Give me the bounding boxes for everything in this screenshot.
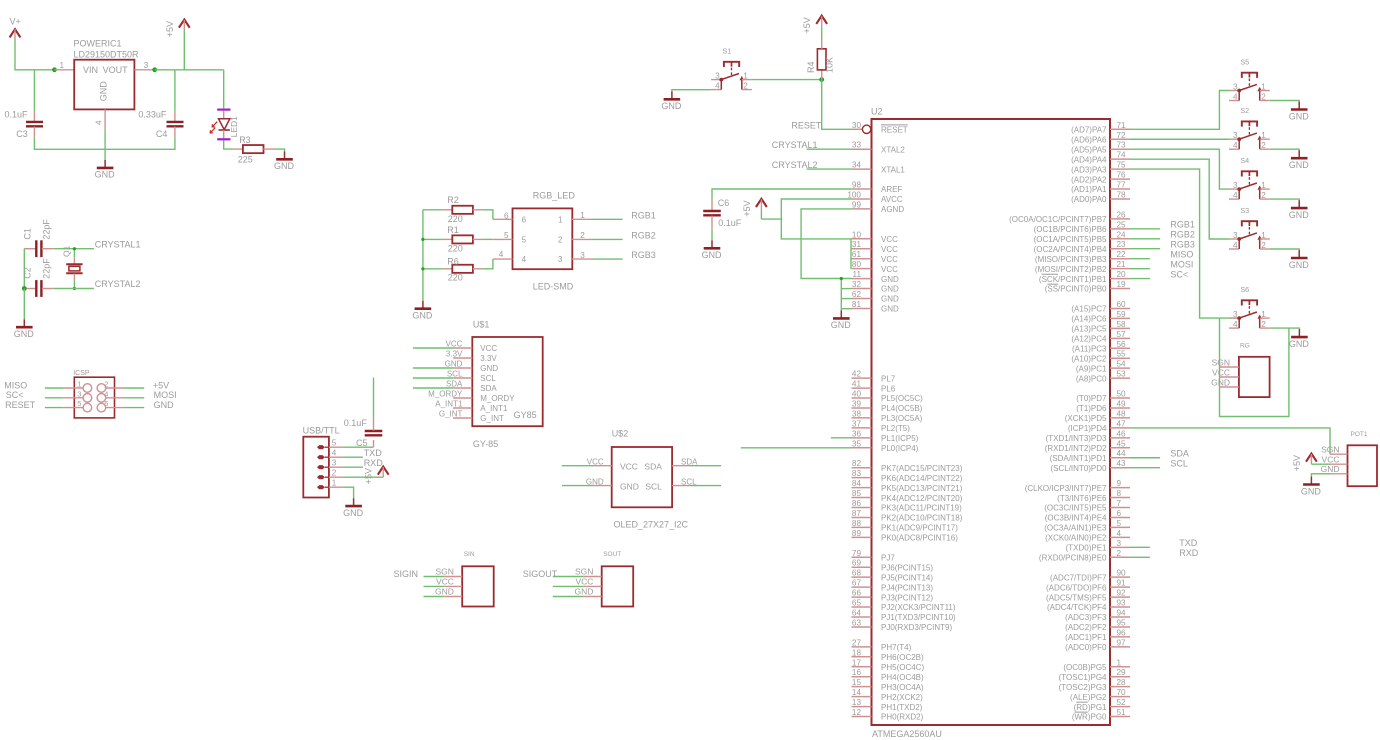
svg-text:GND: GND	[480, 364, 498, 373]
svg-text:73: 73	[1117, 141, 1127, 150]
svg-text:1: 1	[1261, 310, 1266, 319]
wire SDA (U2)	[1130, 457, 1160, 459]
wire S3 pin2 to gnd	[1270, 249, 1299, 250]
wire PA7 to S5	[1130, 91, 1229, 130]
connector USB/TTL pin 1 stub	[329, 486, 344, 488]
ground GND (crystal)	[23, 319, 25, 327]
svg-text:G_INT: G_INT	[439, 409, 463, 418]
wire AVCC loop	[781, 199, 851, 239]
ic U2 right pin (AD0)PA0 (78)	[1110, 198, 1130, 200]
module U$1 pin SCL stub	[453, 377, 472, 379]
resistor R1 220	[423, 238, 443, 240]
svg-text:SC<: SC<	[6, 390, 24, 400]
svg-text:(ADC4/TCK)PF4: (ADC4/TCK)PF4	[1047, 603, 1107, 612]
svg-text:2: 2	[558, 235, 563, 244]
wire RGB1 (led side)	[593, 218, 623, 220]
svg-text:M_ORDY: M_ORDY	[428, 389, 463, 398]
svg-text:3: 3	[1233, 231, 1238, 240]
ic U2 right pin (MOSI/PCINT2)PB2 (21)	[1110, 268, 1130, 270]
svg-text:44: 44	[1117, 449, 1127, 458]
svg-text:20: 20	[1117, 270, 1127, 279]
wire C2 to gnd	[23, 289, 25, 320]
wire PA5 to S4	[1130, 149, 1229, 189]
svg-text:ATMEGA2560AU: ATMEGA2560AU	[872, 729, 942, 739]
svg-text:C4: C4	[156, 129, 168, 139]
ground GND (S5)	[1298, 102, 1300, 110]
module U$1 pin SDA stub	[453, 387, 472, 389]
node junction C2	[22, 286, 27, 291]
capacitor C5 0.1uF	[373, 440, 375, 447]
wire C3 branch	[33, 70, 35, 111]
wire S1 pin1 to R4	[752, 79, 822, 81]
ic U2 right pin (ADC7/TDI)PF7 (90)	[1110, 576, 1130, 578]
svg-text:96: 96	[1117, 628, 1127, 637]
svg-text:(ADC6/TDO)PF6: (ADC6/TDO)PF6	[1046, 583, 1107, 592]
svg-text:57: 57	[1117, 330, 1127, 339]
svg-text:5: 5	[504, 231, 509, 240]
wire C5 up (dangling)	[373, 378, 375, 418]
svg-text:VCC: VCC	[620, 461, 638, 471]
module RG pin SGN	[1220, 366, 1239, 368]
ic U2 left pin PL0(ICP4) (35)	[852, 447, 872, 449]
svg-text:79: 79	[852, 549, 862, 558]
wire ICSP right row 3	[124, 407, 144, 409]
svg-text:14: 14	[852, 688, 862, 697]
wire RGB2 (U2)	[1130, 238, 1160, 240]
svg-text:VCC: VCC	[436, 577, 454, 587]
connector ICSP pin 2 stub	[106, 387, 124, 389]
svg-text:(TOSC1)PG4: (TOSC1)PG4	[1059, 673, 1107, 682]
svg-text:SGN: SGN	[1321, 445, 1339, 455]
svg-text:(ADC5/TMS)PF5: (ADC5/TMS)PF5	[1046, 593, 1107, 602]
ic U2 left pin AGND (99)	[852, 208, 872, 210]
wire USB pin3 RXD	[344, 466, 363, 468]
svg-text:XTAL2: XTAL2	[881, 145, 905, 154]
svg-text:PJ5(PCINT14): PJ5(PCINT14)	[881, 573, 933, 582]
svg-text:86: 86	[852, 499, 862, 508]
connector ICSP pin 2 circle	[97, 384, 106, 393]
svg-text:+5V: +5V	[742, 200, 752, 216]
svg-text:1: 1	[332, 479, 337, 488]
ic RGB_LED left pin 4 stub	[493, 258, 513, 260]
svg-text:5: 5	[332, 439, 337, 448]
svg-text:220: 220	[448, 273, 463, 283]
module RG pin VCC	[1220, 376, 1239, 378]
svg-text:GND: GND	[1289, 260, 1310, 270]
svg-text:POT1: POT1	[1351, 431, 1368, 438]
power symbol +5V arrow (R4)	[816, 16, 827, 24]
svg-text:(CLKO/ICP3/INT7)PE7: (CLKO/ICP3/INT7)PE7	[1025, 484, 1107, 493]
svg-text:35: 35	[852, 439, 862, 448]
svg-text:16: 16	[852, 668, 862, 677]
svg-text:4: 4	[499, 250, 504, 259]
svg-text:84: 84	[852, 479, 862, 488]
led LED1 branch wire	[223, 70, 225, 109]
svg-text:64: 64	[852, 608, 862, 617]
ic U2 right pin (ADC6/TDO)PF6 (91)	[1110, 586, 1130, 588]
ic U2 left pin PJ2(XCK3/PCINT11) (65)	[852, 606, 872, 608]
svg-text:PH7(T4): PH7(T4)	[881, 643, 912, 652]
module POT1 pin GND	[1330, 473, 1348, 475]
svg-text:(RXD0/PCIN8)PE0: (RXD0/PCIN8)PE0	[1039, 553, 1107, 562]
wire TXD (U2)	[1130, 546, 1150, 548]
svg-text:GND: GND	[343, 508, 364, 518]
svg-text:32: 32	[852, 280, 862, 289]
svg-text:4: 4	[522, 255, 527, 264]
connector USB/TTL pin 3 flag	[317, 465, 325, 469]
svg-text:(ICP1)PD4: (ICP1)PD4	[1068, 424, 1107, 433]
wire SIN SGN	[424, 576, 445, 578]
svg-text:(ADC3)PF3: (ADC3)PF3	[1065, 613, 1107, 622]
wire ICSP left row 1	[45, 387, 64, 389]
svg-text:PL3(OC5A): PL3(OC5A)	[881, 414, 923, 423]
wire RXD (U2)	[1130, 556, 1150, 558]
svg-text:PL1(ICP5): PL1(ICP5)	[881, 434, 919, 443]
svg-text:+5V: +5V	[802, 17, 812, 33]
svg-text:(T3/INT6)PE6: (T3/INT6)PE6	[1057, 494, 1107, 503]
module U$1 pin M_ORDY stub	[453, 397, 472, 399]
svg-text:74: 74	[1117, 151, 1127, 160]
ic U2 right pin (AD5)PA5 (73)	[1110, 148, 1130, 150]
wire PA3 to S6	[1130, 169, 1239, 318]
svg-text:VCC: VCC	[1322, 455, 1340, 465]
svg-text:2: 2	[1261, 191, 1266, 200]
svg-text:100: 100	[847, 190, 861, 199]
svg-text:(AD2)PA2: (AD2)PA2	[1071, 175, 1107, 184]
connector ICSP pin 5 circle	[83, 403, 92, 412]
svg-text:S2: S2	[1240, 106, 1249, 115]
ic U2 left pin PL5(OC5C) (40)	[852, 397, 872, 399]
svg-text:RG: RG	[1240, 343, 1250, 350]
wire +5V to POT1 VCC	[1311, 463, 1330, 465]
wire S6 pin2 to gnd	[1270, 328, 1300, 329]
svg-text:2: 2	[104, 380, 108, 389]
svg-text:AVCC: AVCC	[881, 195, 903, 204]
svg-text:22pF: 22pF	[42, 219, 52, 240]
resistor R2 220	[423, 209, 443, 211]
ic U2 left pin PK3(ADC11/PCINT19) (86)	[852, 507, 872, 509]
ic U2 right pin (ADC3)PF3 (94)	[1110, 616, 1130, 618]
ic U2 left pin AREF (98)	[852, 188, 872, 190]
svg-text:PK2(ADC10/PCINT18): PK2(ADC10/PCINT18)	[881, 514, 963, 523]
svg-text:10K: 10K	[824, 57, 834, 73]
connector SIN pin GND	[444, 596, 462, 598]
svg-text:97: 97	[1117, 638, 1127, 647]
svg-text:70: 70	[1117, 688, 1127, 697]
ic U2 right pin (ADC0)PF0 (97)	[1110, 646, 1130, 648]
svg-text:PH3(OC4A): PH3(OC4A)	[881, 683, 924, 692]
connector SIN pin SGN	[444, 576, 462, 578]
wire SOUT GND	[553, 596, 584, 598]
wire ICSP right row 2	[124, 397, 144, 399]
ic U2 left pin PL3(OC5A) (38)	[852, 417, 872, 419]
svg-text:PK4(ADC12/PCINT20): PK4(ADC12/PCINT20)	[881, 494, 963, 503]
module U$1 pin 3.3V stub	[453, 357, 472, 359]
ic U2 left pin PH3(OC4A) (15)	[852, 686, 872, 688]
wire ICSP left row 2	[45, 397, 64, 399]
svg-text:RXD: RXD	[364, 458, 384, 468]
ic U2 right pin (OC0A/OC1C/PCINT7)PB7 (26)	[1110, 218, 1130, 220]
svg-text:R2: R2	[447, 195, 459, 205]
module U$1 pin VCC stub	[453, 347, 472, 349]
svg-text:4: 4	[1233, 141, 1238, 150]
ic U2 left pin VCC (80)	[852, 268, 872, 270]
ic U2 left pin AVCC (100)	[852, 198, 872, 200]
ic U2 right pin (A14)PC6 (59)	[1110, 317, 1130, 319]
ic U2 left pin PH7(T4) (27)	[852, 646, 872, 648]
svg-text:31: 31	[852, 240, 862, 249]
wire USB pin1 to gnd	[344, 487, 354, 498]
svg-text:AREF: AREF	[881, 185, 902, 194]
svg-text:(OC3C/INT5)PE5: (OC3C/INT5)PE5	[1044, 504, 1107, 513]
pin 3 stub POWERIC1	[134, 69, 154, 71]
svg-text:6: 6	[504, 211, 509, 220]
svg-text:GND: GND	[1289, 111, 1310, 121]
svg-text:C1: C1	[23, 228, 33, 240]
ic U2 right pin (A13)PC5 (58)	[1110, 327, 1130, 329]
svg-text:1: 1	[558, 215, 563, 224]
ground GND (R3)	[284, 151, 286, 159]
ic U2 right pin (TXD1/INT3)PD3 (46)	[1110, 437, 1130, 439]
svg-text:PJ0(RXD3/PCINT9): PJ0(RXD3/PCINT9)	[881, 623, 952, 632]
svg-text:220: 220	[448, 243, 463, 253]
ic U2 left pin PH0(RXD2) (12)	[852, 716, 872, 718]
ic U2 left pin PK2(ADC10/PCINT18) (87)	[852, 516, 872, 518]
svg-text:3: 3	[144, 61, 149, 70]
ic U2 right pin (AD1)PA1 (77)	[1110, 188, 1130, 190]
ic U2 right pin (ADC2)PF2 (95)	[1110, 626, 1130, 628]
svg-text:PJ2(XCK3/PCINT11): PJ2(XCK3/PCINT11)	[881, 603, 956, 612]
ic U2 right pin (TOSC2)PG3 (28)	[1110, 686, 1130, 688]
svg-text:21: 21	[1117, 260, 1127, 269]
connector ICSP pin 4 stub	[106, 397, 124, 399]
svg-text:POWERIC1: POWERIC1	[74, 39, 122, 49]
svg-text:GND: GND	[274, 161, 295, 171]
svg-text:PJ6(PCINT15): PJ6(PCINT15)	[881, 563, 933, 572]
wire R3 to gnd	[275, 149, 285, 151]
wire POT1 GND	[1311, 474, 1330, 477]
ic U2 ATMEGA2560AU body	[872, 119, 1111, 725]
svg-text:22pF: 22pF	[42, 258, 52, 279]
svg-text:GND: GND	[1301, 486, 1322, 496]
wire USB pin5 to C5	[344, 446, 374, 448]
ic U2 right pin (AD6)PA6 (72)	[1110, 138, 1130, 140]
svg-text:2: 2	[1117, 549, 1122, 558]
wire U$1 SDA	[413, 387, 453, 389]
svg-text:SCL: SCL	[1170, 459, 1188, 469]
wire U$1 VCC	[413, 347, 453, 349]
svg-text:(A11)PC3: (A11)PC3	[1072, 344, 1107, 353]
svg-text:LD29150DT50R: LD29150DT50R	[74, 49, 140, 59]
svg-text:S3: S3	[1240, 206, 1249, 215]
svg-text:PL2(T5): PL2(T5)	[881, 424, 910, 433]
svg-text:GND: GND	[435, 587, 454, 597]
switch S6 button bracket	[1242, 300, 1257, 305]
wire Q1 to CRYSTAL2 net	[73, 280, 75, 288]
wire +5V rail	[155, 69, 224, 71]
svg-text:12: 12	[852, 708, 862, 717]
svg-text:54: 54	[1117, 360, 1127, 369]
svg-text:85: 85	[852, 489, 862, 498]
ic U2 left pin PK4(ADC12/PCINT20) (85)	[852, 497, 872, 499]
ic U2 right pin (AD2)PA2 (76)	[1110, 178, 1130, 180]
svg-text:S1: S1	[723, 47, 732, 56]
wire U$1 GND	[413, 367, 453, 369]
svg-text:68: 68	[852, 569, 862, 578]
svg-text:PL0(ICP4): PL0(ICP4)	[881, 444, 919, 453]
ic U2 left pin VCC (61)	[852, 258, 872, 260]
svg-text:1: 1	[1261, 131, 1266, 140]
svg-text:(OC1B/PCINT6)PB6: (OC1B/PCINT6)PB6	[1034, 225, 1107, 234]
ic U2 left pin PL7 (42)	[852, 377, 872, 379]
svg-text:13: 13	[852, 698, 862, 707]
svg-text:36: 36	[852, 429, 862, 438]
led LED1	[217, 108, 230, 110]
svg-text:5: 5	[77, 399, 81, 408]
wire SCL (U2)	[1130, 467, 1160, 469]
svg-text:43: 43	[1117, 459, 1127, 468]
ic U2 left pin PH4(OC4B) (16)	[852, 676, 872, 678]
ground GND (S4)	[1298, 200, 1300, 208]
svg-text:SGN: SGN	[435, 567, 453, 577]
svg-text:2: 2	[1261, 93, 1266, 102]
svg-text:19: 19	[1117, 280, 1127, 289]
ic U2 left pin XTAL2 (33)	[852, 148, 872, 150]
svg-text:81: 81	[852, 300, 862, 309]
svg-text:VCC: VCC	[575, 577, 593, 587]
svg-text:PK1(ADC9/PCINT17): PK1(ADC9/PCINT17)	[881, 524, 958, 533]
ic U2 left pin PL6 (41)	[852, 387, 872, 389]
svg-text:A_INT1: A_INT1	[480, 404, 508, 413]
svg-text:RGB2: RGB2	[1170, 230, 1195, 240]
svg-text:80: 80	[852, 260, 862, 269]
svg-text:5: 5	[522, 235, 527, 244]
ic U2 left pin PL2(T5) (37)	[852, 427, 872, 429]
wire PL1 stub	[831, 437, 852, 439]
svg-text:(MOSI/PCINT2)PB2: (MOSI/PCINT2)PB2	[1035, 265, 1107, 274]
svg-text:91: 91	[1117, 579, 1127, 588]
svg-text:C6: C6	[718, 198, 730, 208]
svg-text:+5V: +5V	[364, 468, 374, 484]
svg-text:3: 3	[558, 255, 563, 264]
ic RGB_LED right pin 3 stub	[572, 258, 593, 260]
ic U2 left pin XTAL1 (34)	[852, 168, 872, 170]
svg-text:4: 4	[104, 389, 108, 398]
wire U$2 VCC	[562, 465, 594, 467]
svg-text:2: 2	[580, 231, 585, 240]
ic U2 right pin (TOSC1)PG4 (29)	[1110, 676, 1130, 678]
svg-text:M_ORDY: M_ORDY	[480, 394, 515, 403]
wire resistor rail	[422, 210, 424, 301]
svg-text:USB/TTL: USB/TTL	[303, 426, 340, 436]
svg-text:6: 6	[522, 215, 527, 224]
ic U2 right pin (ADC5/TMS)PF5 (92)	[1110, 596, 1130, 598]
svg-text:50: 50	[1117, 390, 1127, 399]
connector USB/TTL pin 2 stub	[329, 476, 344, 478]
ic U2 left pin PK0(ADC8/PCINT16) (89)	[852, 536, 872, 538]
ic U2 left pin PJ6(PCINT15) (69)	[852, 566, 872, 568]
svg-text:S4: S4	[1240, 156, 1249, 165]
svg-text:3: 3	[1233, 131, 1238, 140]
svg-text:A_INT1: A_INT1	[435, 399, 463, 408]
svg-text:TXD: TXD	[1179, 538, 1198, 548]
svg-text:R3: R3	[239, 135, 251, 145]
wire SIN GND	[424, 596, 445, 598]
svg-text:52: 52	[1117, 698, 1127, 707]
svg-text:VCC: VCC	[446, 339, 463, 348]
power symbol +5V arrow (AVCC)	[756, 199, 767, 207]
svg-text:10: 10	[852, 230, 862, 239]
ic U2 left pin PJ4(PCINT13) (67)	[852, 586, 872, 588]
svg-text:(ADC1)PF1: (ADC1)PF1	[1065, 633, 1107, 642]
wire PD4 to POT1	[1130, 428, 1330, 454]
svg-text:29: 29	[1117, 668, 1127, 677]
wire GND group	[840, 279, 842, 309]
svg-text:25: 25	[1117, 220, 1127, 229]
connector SOUT pin GND	[584, 596, 602, 598]
svg-text:C5: C5	[356, 438, 368, 448]
svg-text:15: 15	[852, 678, 862, 687]
svg-text:76: 76	[1117, 171, 1127, 180]
svg-text:(MISO/PCINT3)PB3: (MISO/PCINT3)PB3	[1035, 255, 1107, 264]
svg-text:GND: GND	[412, 311, 433, 321]
module U$1 pin GND stub	[453, 367, 472, 369]
svg-text:(SCK/PCINT1)PB1: (SCK/PCINT1)PB1	[1039, 275, 1107, 284]
svg-text:(T1)PD6: (T1)PD6	[1076, 404, 1107, 413]
svg-text:GND: GND	[620, 481, 639, 491]
svg-text:SDA: SDA	[644, 461, 662, 471]
svg-text:34: 34	[852, 161, 862, 170]
svg-text:77: 77	[1117, 181, 1127, 190]
node junction S1/R4	[819, 77, 824, 82]
svg-text:61: 61	[852, 250, 862, 259]
svg-text:63: 63	[852, 618, 862, 627]
svg-text:22: 22	[1117, 250, 1127, 259]
svg-text:67: 67	[852, 579, 862, 588]
svg-text:LED1: LED1	[229, 116, 239, 138]
svg-text:(ADC0)PF0: (ADC0)PF0	[1065, 643, 1107, 652]
svg-text:(AD3)PA3: (AD3)PA3	[1071, 165, 1107, 174]
ic RGB_LED left pin 5 stub	[492, 238, 512, 240]
wire U$2 SCL	[690, 485, 721, 487]
ic U2 right pin (T3/INT6)PE6 (8)	[1110, 497, 1130, 499]
ic U2 right pin (T1)PD6 (49)	[1110, 407, 1130, 409]
svg-text:PK6(ADC14/PCINT22): PK6(ADC14/PCINT22)	[881, 474, 963, 483]
connector ICSP pin 6 circle	[97, 403, 106, 412]
svg-text:GND: GND	[1211, 377, 1230, 387]
svg-text:1: 1	[1261, 83, 1266, 92]
svg-text:3: 3	[1233, 83, 1238, 92]
svg-text:PJ4(PCINT13): PJ4(PCINT13)	[881, 583, 933, 592]
svg-text:GND: GND	[14, 329, 35, 339]
power symbol +5V arrow (POT1)	[1306, 454, 1317, 462]
wire C1 left down to C2	[23, 249, 25, 289]
svg-text:4: 4	[1233, 241, 1238, 250]
pin 1 stub POWERIC1	[55, 69, 75, 71]
svg-text:60: 60	[1117, 300, 1127, 309]
svg-text:225: 225	[238, 154, 253, 164]
svg-text:58: 58	[1117, 320, 1127, 329]
switch S5 button bracket	[1242, 73, 1257, 78]
svg-text:6: 6	[1117, 509, 1122, 518]
ic U2 left pin PJ3(PCINT12) (66)	[852, 596, 872, 598]
svg-text:SCL: SCL	[480, 374, 496, 383]
svg-text:0.1uF: 0.1uF	[5, 110, 29, 120]
wire XTAL2 CRYSTAL1	[807, 148, 852, 150]
svg-text:71: 71	[1117, 121, 1127, 130]
svg-text:AGND: AGND	[881, 205, 904, 214]
svg-text:(SS/PCINT0)PB0: (SS/PCINT0)PB0	[1045, 285, 1107, 294]
